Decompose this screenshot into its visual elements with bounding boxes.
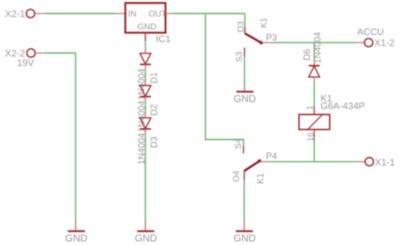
ground (O4) <box>233 222 255 245</box>
pin stub IC1 GND <box>144 33 146 41</box>
pin stub IC1 OUT <box>166 13 174 15</box>
svg-text:G6A-434P: G6A-434P <box>321 101 365 112</box>
pin O4 <box>243 171 245 180</box>
wire O4 to GND <box>243 180 245 222</box>
wire D3 to GND <box>144 134 146 222</box>
pin O3 <box>244 26 246 33</box>
contact arm P4-O4 <box>244 161 259 171</box>
svg-text:P4: P4 <box>266 151 277 161</box>
svg-text:GND: GND <box>138 22 157 32</box>
terminal X1-1 <box>356 158 395 169</box>
svg-text:GND: GND <box>65 234 87 245</box>
terminal X2-1 <box>5 9 46 20</box>
svg-text:IC1: IC1 <box>156 34 171 45</box>
diode D1 <box>136 49 159 100</box>
wire X2-1 to IC1 IN <box>46 13 116 15</box>
svg-text:O4: O4 <box>231 170 241 182</box>
diode D2 <box>136 81 159 132</box>
svg-text:X2-1: X2-1 <box>5 9 25 20</box>
voltage regulator IC1 <box>125 3 170 45</box>
svg-text:O3: O3 <box>235 21 245 33</box>
relay coil K1 G6A-434P <box>299 93 365 141</box>
terminal X1-2 <box>354 27 395 49</box>
terminal X2-2 <box>5 49 46 60</box>
wire junction down to D6 <box>313 43 315 61</box>
svg-text:IN: IN <box>128 9 137 19</box>
pin S3 <box>244 48 246 57</box>
svg-text:19V: 19V <box>17 58 35 69</box>
svg-text:D3: D3 <box>149 136 159 148</box>
wire IC1 GND to D1 <box>144 41 146 49</box>
pin P3 <box>262 42 275 44</box>
svg-text:GND: GND <box>234 94 256 105</box>
svg-text:X1-2: X1-2 <box>374 38 394 49</box>
wire P4 to X1-1 <box>271 161 356 163</box>
wire D1 to D2 <box>144 70 146 82</box>
contact arm O3-P3 <box>245 33 261 42</box>
wire P3 to X1-2 <box>274 42 354 44</box>
svg-text:1N4004: 1N4004 <box>313 32 323 64</box>
svg-text:D1: D1 <box>149 72 159 84</box>
svg-text:P3: P3 <box>266 33 277 43</box>
svg-text:K1: K1 <box>259 17 269 28</box>
svg-text:X1-1: X1-1 <box>375 158 395 169</box>
diode D3 <box>136 114 159 165</box>
svg-text:K1: K1 <box>255 173 265 184</box>
relay contact K1 upper (O3/P3/S3) <box>234 14 277 63</box>
pin P4 <box>258 159 261 162</box>
relay contact K1 lower (S4/P4/O4) <box>231 138 277 184</box>
wire D2 to D3 <box>144 102 146 114</box>
svg-text:GND: GND <box>233 234 255 245</box>
wire X2-2 to GND (down at x=75.6) <box>46 53 76 222</box>
wire S3 to GND <box>244 57 246 88</box>
svg-text:OUT: OUT <box>149 9 167 19</box>
svg-text:S4: S4 <box>233 138 243 149</box>
ground (S3) <box>234 88 256 105</box>
svg-text:S3: S3 <box>234 51 244 62</box>
pin stub IC1 IN <box>116 13 125 15</box>
svg-text:1: 1 <box>306 105 315 110</box>
pin S4 <box>243 146 245 153</box>
svg-text:D2: D2 <box>149 104 159 116</box>
wire corner down to O3 <box>244 14 246 27</box>
wire OUT branch down at x=205.4 to lower contact S4 <box>205 14 243 147</box>
svg-text:GND: GND <box>135 234 157 245</box>
wire D6 to coil pin 1 <box>313 83 315 107</box>
wire IC1 OUT to contact O3 <box>173 13 245 15</box>
ground (diode chain) <box>135 222 157 245</box>
svg-text:D6: D6 <box>302 49 312 61</box>
diode D6 <box>302 32 323 83</box>
svg-text:ACCU: ACCU <box>357 27 384 38</box>
wire coil pin 16 to X1-1 net <box>313 138 315 162</box>
ground (left) <box>65 222 87 245</box>
